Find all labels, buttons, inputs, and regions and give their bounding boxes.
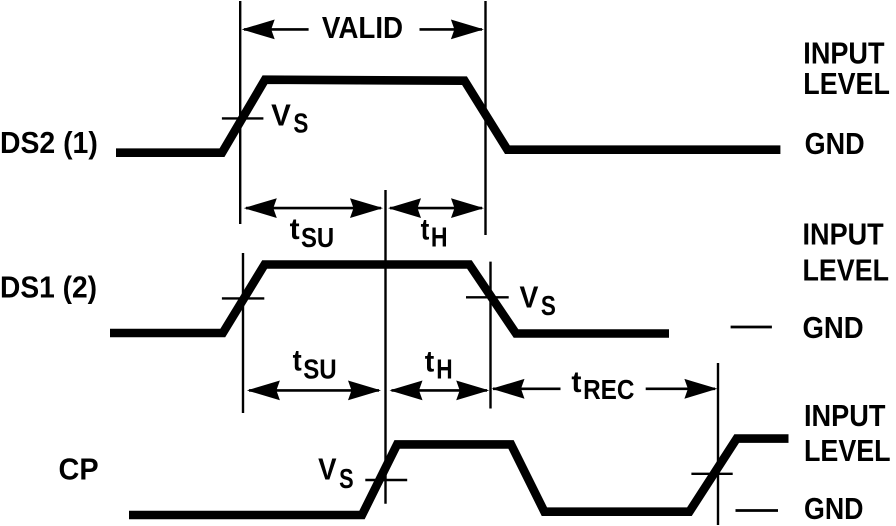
svg-text:t: t	[571, 366, 581, 399]
svg-text:SU: SU	[301, 222, 334, 253]
svg-text:SU: SU	[303, 353, 337, 384]
svg-text:GND: GND	[804, 491, 864, 526]
svg-text:CP: CP	[59, 451, 99, 486]
svg-text:H: H	[436, 354, 452, 385]
svg-text:V: V	[271, 97, 291, 132]
svg-text:t: t	[425, 346, 435, 379]
svg-text:REC: REC	[583, 374, 634, 405]
svg-text:INPUT: INPUT	[803, 217, 884, 252]
svg-text:t: t	[290, 213, 300, 246]
svg-text:S: S	[339, 463, 354, 494]
svg-text:DS2 (1): DS2 (1)	[0, 125, 98, 160]
svg-text:S: S	[541, 290, 556, 321]
svg-text:V: V	[520, 280, 539, 315]
svg-text:LEVEL: LEVEL	[804, 433, 891, 468]
svg-text:t: t	[421, 214, 430, 247]
svg-text:GND: GND	[805, 126, 865, 161]
svg-text:S: S	[293, 108, 308, 139]
svg-text:t: t	[293, 345, 302, 378]
svg-text:LEVEL: LEVEL	[803, 66, 890, 101]
svg-text:H: H	[431, 222, 448, 253]
svg-text:INPUT: INPUT	[804, 398, 885, 433]
svg-text:VALID: VALID	[322, 10, 403, 45]
svg-text:V: V	[318, 452, 337, 487]
svg-text:DS1 (2): DS1 (2)	[0, 270, 97, 305]
svg-text:LEVEL: LEVEL	[803, 253, 890, 288]
svg-text:GND: GND	[803, 310, 864, 345]
